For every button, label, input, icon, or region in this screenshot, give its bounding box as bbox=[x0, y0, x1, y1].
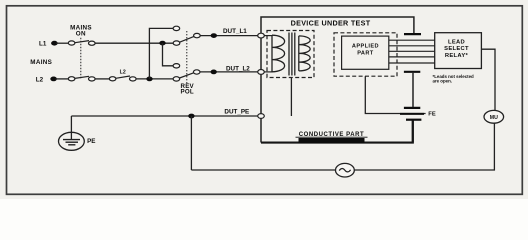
measuring unit MU bbox=[484, 110, 504, 123]
applied part box bbox=[342, 36, 389, 69]
label MAINS ON bbox=[70, 25, 92, 38]
relay box LEAD SELECT RELAY bbox=[435, 33, 482, 69]
transformer T1 secondary winding bbox=[299, 36, 310, 71]
wire applied part to FE bbox=[365, 76, 425, 113]
wire DUT_L2 bbox=[200, 71, 258, 73]
switch S1 mechanical linkage (dashed) bbox=[80, 38, 82, 79]
wire transformer core to DUT_PE bbox=[290, 78, 292, 117]
wire PE drop bbox=[70, 116, 72, 140]
svg-text:PE: PE bbox=[87, 138, 95, 145]
wire lead 5 bbox=[389, 62, 435, 64]
svg-text:DUT_PE: DUT_PE bbox=[224, 109, 249, 116]
svg-text:MAINS: MAINS bbox=[30, 59, 52, 66]
wire lead 4 bbox=[389, 56, 435, 58]
wire primary bottom lead bbox=[264, 71, 272, 73]
node PE junction bbox=[188, 114, 194, 119]
wire relay to MU bbox=[481, 49, 495, 110]
wire MU to bottom rail bbox=[191, 123, 494, 170]
ground PE symbol bbox=[59, 132, 85, 150]
node L1 junction bbox=[159, 41, 165, 46]
node DUT_L2 bbox=[211, 70, 217, 75]
enclosure DEVICE UNDER TEST bbox=[261, 17, 414, 143]
svg-text:DUT_L1: DUT_L1 bbox=[223, 28, 247, 35]
terminal L2 bbox=[50, 77, 57, 82]
svg-text:ON: ON bbox=[76, 31, 86, 38]
svg-text:FE: FE bbox=[428, 111, 436, 117]
transformer T1 core bbox=[289, 33, 295, 76]
conductive part bar bbox=[296, 132, 368, 143]
svg-text:L1: L1 bbox=[39, 41, 47, 48]
capacitor plate on FE wire bbox=[400, 113, 424, 115]
switch S1 pole L2 bbox=[68, 76, 95, 81]
source V1 (AC) bbox=[336, 163, 355, 177]
wire L1 switch to REV POL throw bbox=[95, 42, 173, 44]
wire L2 to switch bbox=[56, 78, 69, 80]
wire lead 2 bbox=[389, 45, 435, 47]
svg-text:APPLIED: APPLIED bbox=[352, 43, 379, 49]
switch REV POL pole 2 bbox=[173, 64, 200, 82]
node L2 junction bbox=[146, 77, 152, 82]
applied part enclosure (dashed) bbox=[334, 33, 397, 76]
svg-text:PART: PART bbox=[357, 51, 374, 57]
label REV POL bbox=[181, 83, 195, 96]
wire L1 to switch bbox=[56, 42, 68, 44]
svg-text:RELAY*: RELAY* bbox=[445, 53, 469, 59]
switch REV POL mechanical linkage (dashed) bbox=[186, 31, 188, 83]
wire L2 crossover riser bbox=[149, 28, 173, 79]
svg-text:L2: L2 bbox=[120, 69, 126, 75]
wire L2 contact to REV POL throw bbox=[136, 78, 173, 80]
svg-text:L2: L2 bbox=[36, 76, 44, 83]
svg-text:POL: POL bbox=[181, 89, 194, 96]
capacitor plate E (to conductive part) bbox=[406, 120, 421, 143]
wire lead 3 bbox=[389, 50, 435, 52]
pin DUT_PE entry bbox=[258, 114, 265, 119]
transformer T1 primary winding bbox=[272, 35, 285, 72]
relay contact L2 bbox=[109, 76, 136, 81]
svg-text:are open.: are open. bbox=[433, 78, 453, 83]
svg-text:LEAD: LEAD bbox=[448, 40, 465, 46]
capacitor C1 plate A (from enclosure top) bbox=[404, 33, 421, 35]
capacitor plate assembly B-C bbox=[404, 72, 420, 108]
svg-text:DUT_L2: DUT_L2 bbox=[226, 66, 250, 73]
note leads not selected bbox=[433, 74, 475, 84]
svg-text:MU: MU bbox=[490, 115, 498, 121]
svg-text:SELECT: SELECT bbox=[444, 46, 469, 52]
wire DUT_L1 bbox=[200, 35, 258, 37]
wire PE rail bbox=[71, 115, 258, 117]
svg-text:DEVICE UNDER TEST: DEVICE UNDER TEST bbox=[291, 18, 371, 27]
transformer T1 enclosure (dashed) bbox=[267, 31, 314, 78]
terminal L1 bbox=[51, 41, 58, 46]
switch S1 pole L1 bbox=[68, 41, 95, 46]
switch REV POL pole 1 bbox=[173, 26, 200, 45]
pin DUT_L2 entry bbox=[258, 70, 265, 75]
pin DUT_L1 entry bbox=[258, 33, 265, 38]
wire primary top lead bbox=[264, 35, 272, 37]
wire L1 tap down bbox=[163, 43, 174, 66]
wire L2 switch to relay contact bbox=[95, 78, 109, 80]
node DUT_L1 bbox=[211, 33, 217, 38]
wire lead 1 bbox=[389, 39, 435, 41]
wire PE junction down bbox=[190, 116, 192, 170]
